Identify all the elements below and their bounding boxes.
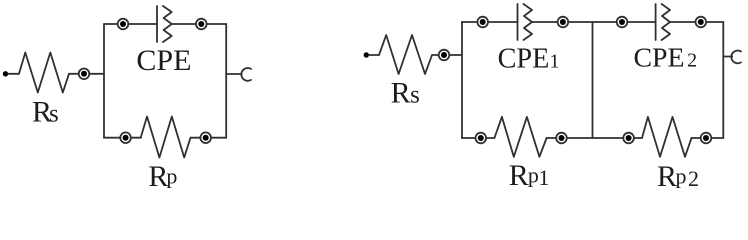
wire top rail left segment (104, 23, 157, 25)
svg-text:CPE: CPE (136, 44, 191, 77)
node after Rs (right circuit) (439, 50, 450, 61)
resistor Rs (right circuit) (379, 35, 439, 74)
right circuit input terminal dot (364, 52, 369, 57)
wire bottom rail segment C (right circuit) (692, 137, 724, 139)
node right of CPE1 (558, 17, 569, 28)
wire middle rail (right circuit) (592, 22, 594, 138)
wire top rail right segment (172, 23, 227, 25)
node left of CPE1 (477, 17, 488, 28)
wire top rail segment B (right circuit) (532, 21, 656, 23)
svg-text:Rp: Rp (148, 160, 177, 192)
node right of CPE2 (696, 17, 707, 28)
node left of Rp2 (623, 133, 634, 144)
CPE1 element: straight plate (517, 4, 519, 40)
CPE2 element: zigzag plate (662, 4, 670, 40)
wire stub to output terminal (226, 73, 241, 75)
node left of Rp (left circuit) (120, 132, 131, 143)
resistor Rs (left circuit) (19, 53, 79, 93)
CPE2 element: straight plate (655, 4, 657, 40)
svg-text:CPE2: CPE2 (634, 43, 698, 74)
wire left rail of parallel block (103, 24, 105, 138)
node left of Rp1 (476, 133, 487, 144)
node left of CPE (left circuit) (118, 19, 129, 30)
wire stub to output terminal (right circuit) (723, 56, 732, 58)
resistor Rp2 (642, 117, 692, 157)
resistor Rp (left circuit) (141, 117, 201, 158)
wire top rail segment A (right circuit) (462, 21, 518, 23)
node right of Rp (left circuit) (200, 132, 211, 143)
node right of Rp1 (556, 133, 567, 144)
wire node after Rs to left rail (right circuit) (449, 54, 462, 56)
wire from input dot to Rs (right circuit) (369, 54, 379, 56)
output terminal C (right circuit) (731, 51, 741, 64)
wire node after Rs to left rail (89, 73, 104, 75)
node right of CPE (left circuit) (196, 19, 207, 30)
wire bottom rail left segment (104, 137, 141, 139)
wire from input dot to Rs (8, 73, 19, 75)
svg-text:Rp1: Rp1 (509, 159, 550, 192)
node left of CPE2 (617, 17, 628, 28)
svg-text:Rs: Rs (391, 76, 420, 109)
svg-text:CPE1: CPE1 (498, 44, 560, 75)
wire bottom rail right segment (200, 137, 226, 139)
wire left rail (right circuit) (461, 22, 463, 138)
CPE element (left circuit): straight plate (156, 6, 158, 42)
node right of Rp2 (701, 133, 712, 144)
wire right rail of parallel block (225, 24, 227, 138)
CPE element (left circuit): zigzag plate (163, 6, 172, 42)
node after Rs (left circuit) (79, 69, 90, 80)
wire bottom rail segment B (right circuit) (547, 137, 642, 139)
wire top rail segment C (right circuit) (670, 21, 723, 23)
left circuit input terminal dot (3, 71, 8, 76)
wire right rail (right circuit) (722, 22, 724, 138)
wire bottom rail segment A (right circuit) (462, 137, 494, 139)
svg-text:Rp2: Rp2 (657, 160, 699, 192)
output terminal C (left circuit) (241, 68, 251, 81)
resistor Rp1 (494, 117, 546, 157)
svg-text:Rs: Rs (32, 96, 59, 129)
CPE1 element: zigzag plate (524, 4, 533, 40)
